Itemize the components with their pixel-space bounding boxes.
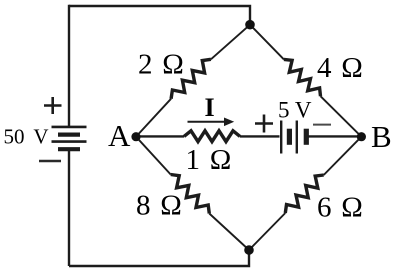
wire bottom horizontal [69, 250, 249, 266]
wire bottom node to 6ohm [249, 213, 285, 250]
resistor R4 8 Ohm zigzag [171, 175, 210, 214]
wire left lower [68, 150, 70, 266]
node top junction dot [245, 20, 255, 30]
wire left upper [68, 5, 70, 126]
wire 4ohm to B [321, 96, 362, 137]
resistor R2 2 Ohm zigzag [171, 59, 211, 98]
svg-text:B: B [371, 119, 392, 154]
wire A to 1ohm [136, 135, 184, 137]
svg-text:4 Ω: 4 Ω [317, 52, 363, 84]
svg-text:6 Ω: 6 Ω [317, 191, 363, 223]
wire battery2 to B [309, 135, 362, 137]
node A dot [131, 132, 140, 141]
plus sign of battery V2 [255, 115, 273, 133]
resistor R5 6 Ohm zigzag [285, 175, 323, 213]
wire 8ohm to bottom node [209, 214, 249, 251]
wire A to 8ohm [136, 137, 171, 175]
plus sign of battery V1 [44, 97, 62, 114]
wire 6ohm to B [324, 137, 362, 175]
svg-text:8 Ω: 8 Ω [136, 190, 182, 222]
current arrow I [188, 118, 235, 127]
svg-text:A: A [108, 118, 131, 153]
battery V2 5V plates [281, 121, 306, 154]
wire top node to 4ohm [250, 25, 284, 60]
svg-text:1 Ω: 1 Ω [186, 144, 232, 176]
minus sign of battery V2 [313, 124, 331, 126]
resistor R3 4 Ohm zigzag [284, 59, 321, 96]
svg-text:50 V: 50 V [4, 125, 49, 149]
wire top horizontal [69, 6, 250, 25]
svg-text:5 V: 5 V [278, 97, 312, 122]
svg-text:I: I [205, 93, 215, 122]
svg-text:2 Ω: 2 Ω [138, 48, 184, 80]
wire 2ohm to top node [211, 25, 250, 60]
minus sign of battery V1 [39, 160, 61, 162]
battery V1 50V plates [52, 127, 87, 149]
wire A to 2ohm [136, 99, 171, 137]
node B dot [357, 132, 366, 141]
resistor R1 1 Ohm zigzag [184, 131, 240, 142]
wire 1ohm to battery2 [240, 135, 280, 137]
node bottom junction dot [244, 245, 254, 255]
